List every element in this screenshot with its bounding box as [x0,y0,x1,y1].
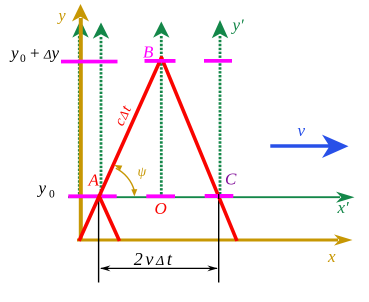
extension line below C redrawn over bar [218,194,220,199]
mirror bar bottom at A [68,194,116,198]
svg-text:ψ: ψ [138,165,147,180]
x' axis arrowhead [336,192,355,203]
mirror bar top at C [204,59,232,63]
svg-text:B: B [143,42,154,61]
y' dotted arrow head at C with label [212,20,228,38]
svg-text:y: y [57,7,67,24]
mirror bar bottom at C [205,194,233,198]
psi arc arrowhead lower (at x' axis) [131,189,137,196]
y axis arrowhead [72,4,89,22]
y' dotted arrow head at origin [72,20,88,38]
y' dotted arrow shaft at B [160,36,163,195]
mirror bar at C (y0 line) redrawn over ray [205,194,233,198]
svg-text:y0 + Δy: y0 + Δy [9,43,60,65]
svg-text:x: x [327,247,336,266]
light ray B to lower-right through C [161,57,237,242]
mirror bar top at origin [61,60,118,64]
y' dotted arrow shaft at C [219,36,222,195]
dimension line 2vdt [101,267,217,269]
svg-text:C: C [225,169,237,188]
mirror bar top at B [145,59,176,63]
mirror bar at B redrawn over ray apex [145,59,176,63]
y axis (olive) [79,18,83,240]
y' dotted arrow head at B [153,22,169,38]
dimension arrowhead left [100,265,111,271]
extension line below C (black) [218,194,220,283]
svg-text:v: v [298,121,306,140]
svg-text:2vΔt: 2vΔt [134,249,175,269]
svg-text:A: A [88,171,100,190]
dimension arrowhead right [207,265,218,271]
psi angle arc [116,168,135,190]
velocity arrow (blue) [270,144,330,147]
svg-text:y0: y0 [37,179,56,201]
x' axis (green) [68,196,340,198]
svg-text:O: O [155,199,167,218]
y' dotted arrow head at A [93,23,109,39]
psi arc arrowhead upper (at ray AB) [114,165,122,170]
y' dotted arrow shaft at A [100,37,103,195]
x axis (olive) [77,239,338,242]
extension line below A (black) [98,194,100,283]
svg-text:y′: y′ [231,16,245,35]
y' dotted arrow shaft at origin (behind olive y-axis) [78,36,81,195]
x axis arrowhead [334,234,353,245]
mirror bar bottom at O [146,194,175,198]
svg-text:x′: x′ [337,198,350,217]
light ray B to lower-left through A [79,57,162,242]
light ray A to lower-right [100,198,120,242]
